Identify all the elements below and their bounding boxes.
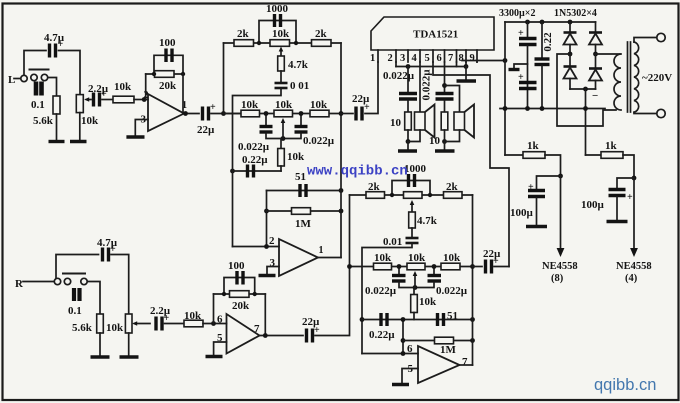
svg-text:+: + xyxy=(627,192,633,203)
wire wiper to 10k (2) xyxy=(413,288,415,295)
svg-text:0 01: 0 01 xyxy=(290,80,309,92)
arrow to NE4558 (4) xyxy=(630,248,638,257)
junction xyxy=(299,111,304,116)
ground (5.6k R) xyxy=(91,355,110,358)
svg-text:0.1: 0.1 xyxy=(31,99,45,111)
svg-text:2: 2 xyxy=(269,235,275,247)
junction AC left xyxy=(568,52,573,57)
junction tone2 in row xyxy=(347,264,352,269)
junction wiper xyxy=(281,136,286,141)
wire 10k to pin2 xyxy=(134,99,148,101)
wire 0.022 right stem xyxy=(300,114,302,126)
svg-text:1M: 1M xyxy=(295,218,312,230)
potentiometer 10k treble (tone2) xyxy=(404,192,423,199)
wire node to ground xyxy=(407,142,409,150)
svg-text:1M: 1M xyxy=(440,344,457,356)
potentiometer 10k (R) xyxy=(125,314,132,333)
capacitor 3300u no.1 xyxy=(518,22,537,109)
capacitor 0.01 (tone2) xyxy=(406,238,419,243)
resistor 1M (tone1) xyxy=(292,208,311,215)
junction pin8 bus xyxy=(464,64,469,69)
junction fb loop left xyxy=(222,292,226,296)
resistor 10k (R series) xyxy=(184,320,203,327)
resistor 10k (tone1 mid right) xyxy=(310,110,329,117)
svg-text:10k: 10k xyxy=(419,296,437,308)
wire to NE4558 arrow (4) xyxy=(633,178,635,249)
capacitor 100u (left) xyxy=(528,182,545,197)
wire primary top xyxy=(634,38,657,43)
wire pot to ground xyxy=(79,113,81,141)
svg-text:2: 2 xyxy=(388,53,393,64)
diode D3 xyxy=(564,54,577,89)
svg-text:L: L xyxy=(8,74,15,86)
wire pin6 to speaker B xyxy=(445,86,460,113)
junction 1M right xyxy=(339,209,344,214)
wire tone1 output vertical xyxy=(340,43,342,258)
wire op1 output xyxy=(184,113,199,115)
wire pin3 to ground xyxy=(267,267,279,275)
wire 505 to 1k left xyxy=(505,154,523,156)
wire 0.022 left stem (2) xyxy=(398,267,400,275)
capacitor 0.22 xyxy=(535,22,550,109)
potentiometer 10k treble (tone1) xyxy=(270,40,290,47)
wire 0.022 right stem (2) xyxy=(433,267,435,275)
wire minus down to rail xyxy=(585,89,587,155)
wire pin3 to ground xyxy=(135,120,148,136)
svg-text:0.022µ: 0.022µ xyxy=(365,285,397,297)
junction pin2 xyxy=(264,244,269,249)
capacitor 22u (L out) xyxy=(203,102,217,121)
ground (op1b pin5) xyxy=(206,355,223,358)
wire speaker A return xyxy=(408,130,420,142)
wire supply vertical xyxy=(504,22,506,155)
wire bottom rail xyxy=(500,108,605,110)
wire tone2 output xyxy=(460,364,473,366)
svg-text:2k: 2k xyxy=(315,28,328,40)
svg-text:10k: 10k xyxy=(184,310,202,322)
junction 1M left (2) xyxy=(401,338,406,343)
wire 0.01 down to mid row xyxy=(362,245,412,354)
terminal circle top xyxy=(657,33,665,41)
resistor 5.6k (L) xyxy=(53,96,60,114)
wire pin4 to speaker A xyxy=(419,62,421,112)
wire wiper bus (bass pot 1) xyxy=(266,134,301,139)
wire speaker B return xyxy=(445,130,460,142)
capacitor 100 (L fb) xyxy=(166,49,172,63)
capacitor 0.22u (tone1) xyxy=(248,165,254,178)
svg-text:~220V: ~220V xyxy=(642,72,672,84)
arrow to NE4558 (8) xyxy=(557,248,565,257)
capacitor 2.2u (L) xyxy=(94,89,108,107)
svg-text:22µ: 22µ xyxy=(483,248,501,260)
wire fb to output xyxy=(182,74,184,114)
wire wiper bus (bass pot 2) xyxy=(399,283,434,288)
terminal circle bottom xyxy=(657,109,665,117)
wire 4.7u to pot top xyxy=(111,255,129,315)
svg-text:7: 7 xyxy=(448,53,453,64)
wire 5.6k to ground xyxy=(56,114,58,141)
svg-text:3300µ×2: 3300µ×2 xyxy=(499,8,535,19)
svg-text:(8): (8) xyxy=(551,273,564,284)
wire 10 to ground node xyxy=(444,130,446,142)
junction tone1 0.22u xyxy=(230,169,235,174)
resistor 10k (L series) xyxy=(113,96,134,103)
wire pin6 down xyxy=(444,62,446,92)
svg-text:4.7µ: 4.7µ xyxy=(97,237,118,249)
wiper arrow (treble pot 1) xyxy=(279,47,284,57)
svg-text:0.22: 0.22 xyxy=(542,32,554,52)
resistor 2k (tone2 left) xyxy=(366,192,385,199)
svg-text:+: + xyxy=(518,72,524,83)
capacitor 0.022u (tone1 right) xyxy=(295,127,308,133)
wire 4.7k to 0.01 xyxy=(411,228,413,237)
junction 1000 left xyxy=(257,41,261,45)
svg-text:TDA1521: TDA1521 xyxy=(413,29,458,41)
svg-text:2.2µ: 2.2µ xyxy=(150,305,171,317)
svg-text:10k: 10k xyxy=(241,99,259,111)
op-amp U1b triangle xyxy=(227,314,260,354)
junction 1000 right xyxy=(294,41,298,45)
svg-text:4.7k: 4.7k xyxy=(417,215,438,227)
resistor 10k (bass wiper 2) xyxy=(411,295,418,313)
wire jack c1 up to 4.7u xyxy=(56,255,99,279)
potentiometer 10k bass (tone1) xyxy=(274,110,293,117)
junction pin3 bus xyxy=(406,64,411,69)
capacitor 100u (right) xyxy=(609,190,634,204)
wire cap B to 10 xyxy=(444,101,446,113)
svg-text:10k: 10k xyxy=(443,252,461,264)
wire pins 8-9 to supply xyxy=(462,61,505,63)
junction 1M right (2) xyxy=(470,338,475,343)
svg-text:5.6k: 5.6k xyxy=(33,115,54,127)
svg-text:6: 6 xyxy=(217,314,223,326)
wire 1M row (2) xyxy=(403,340,473,342)
wire tone2 output vertical xyxy=(472,195,474,365)
capacitor 0.22u (tone2) xyxy=(381,313,387,326)
junction 1M left xyxy=(264,209,269,214)
capacitor 22u (R out) xyxy=(307,325,321,343)
resistor 10k (bass wiper 1) xyxy=(278,149,285,167)
svg-text:0.01: 0.01 xyxy=(383,236,402,248)
svg-text:7: 7 xyxy=(254,323,260,335)
wire pin8 ground stem xyxy=(465,67,467,80)
op-amp U2b triangle (tone2) xyxy=(418,346,460,383)
svg-text:8: 8 xyxy=(459,53,464,64)
ground (centre tap) xyxy=(509,68,520,71)
svg-text:0.1: 0.1 xyxy=(68,305,82,317)
capacitor 0.1 (L, dark) xyxy=(36,82,42,96)
svg-text:1: 1 xyxy=(319,245,324,256)
svg-text:4.7µ: 4.7µ xyxy=(44,32,65,44)
svg-text:0.022µ: 0.022µ xyxy=(303,135,335,147)
svg-text:10k: 10k xyxy=(81,115,99,127)
junction 51 right xyxy=(339,188,344,193)
svg-text:−: − xyxy=(592,90,598,102)
diode D1 xyxy=(564,22,577,54)
junction minus xyxy=(583,87,588,92)
wire 10k to 0.22u wire xyxy=(280,166,282,171)
svg-text:100µ: 100µ xyxy=(581,199,605,211)
op-amp U1a triangle xyxy=(148,94,184,131)
wire centre tap stub xyxy=(514,64,528,69)
wire mid row (bass) xyxy=(224,113,342,115)
wire 4.7u to pot top xyxy=(59,51,81,95)
transformer T1 primary winding xyxy=(634,42,639,112)
svg-text:10k: 10k xyxy=(374,252,392,264)
junction xyxy=(264,111,269,116)
svg-text:www.qqibb.cn: www.qqibb.cn xyxy=(307,164,408,180)
wire V+ top rail xyxy=(505,21,596,23)
svg-text:4: 4 xyxy=(412,53,418,64)
svg-text:10k: 10k xyxy=(106,322,124,334)
resistor 4.7k (tone1) xyxy=(278,56,285,71)
wiper arrow (bass pot 1) xyxy=(281,118,286,139)
svg-text:20k: 20k xyxy=(232,300,250,312)
junction 1000 right xyxy=(428,193,432,197)
svg-text:0.022µ: 0.022µ xyxy=(436,285,468,297)
svg-text:5: 5 xyxy=(425,53,430,64)
svg-text:20k: 20k xyxy=(159,80,177,92)
junction 100u left xyxy=(558,174,563,179)
capacitor 0.022u (tone2 left) xyxy=(392,276,406,282)
op-amp U2a triangle (tone1) xyxy=(279,239,318,276)
wire 51 row xyxy=(267,190,342,192)
svg-text:10k: 10k xyxy=(275,99,293,111)
svg-text:7: 7 xyxy=(462,356,468,368)
wire bus pins 2-3-7-8 xyxy=(396,62,466,67)
junction fb loop right xyxy=(181,72,185,76)
wire tone1 output xyxy=(318,257,341,259)
wire minus rail to 1k right xyxy=(586,154,602,156)
wire jack c3 down to 5.6k xyxy=(48,78,57,97)
wire 5.6k to ground xyxy=(99,333,101,356)
wire wiper to 10k xyxy=(280,139,282,149)
resistor 20k (R fb) xyxy=(230,291,250,298)
ground (zobel A) xyxy=(398,149,417,152)
junction rail crossings xyxy=(503,106,508,111)
capacitor 4.7u (R) xyxy=(103,244,117,262)
wire 100u to ground xyxy=(616,197,618,220)
wire fb vertical (tone1) xyxy=(266,191,268,247)
capacitor 2.2u (R) xyxy=(156,313,170,331)
svg-text:10k: 10k xyxy=(287,151,305,163)
junction xyxy=(397,264,402,269)
svg-text:2k: 2k xyxy=(368,181,381,193)
svg-text:+: + xyxy=(518,28,524,39)
capacitor 0.022u (tone2 right) xyxy=(428,276,442,282)
wire 1000 cap loop xyxy=(259,21,296,44)
pin stubs TDA1521 xyxy=(378,50,477,62)
capacitor 100 (R fb) xyxy=(237,271,243,285)
resistor 5.6k (R) xyxy=(97,314,104,333)
wire node to 100u xyxy=(617,178,634,188)
svg-text:NE4558: NE4558 xyxy=(542,261,578,272)
capacitor 0.01 (tone1) xyxy=(275,83,288,88)
svg-text:0.22µ: 0.22µ xyxy=(242,154,268,166)
capacitor 51 (tone2) xyxy=(438,313,444,326)
svg-text:100µ: 100µ xyxy=(510,207,534,219)
capacitor 3300u no.2 xyxy=(518,72,537,89)
wire tone1 input vertical xyxy=(223,43,225,114)
svg-text:1N5302×4: 1N5302×4 xyxy=(554,8,597,19)
wire feedback riser left xyxy=(145,74,147,100)
wire AC to secondary top xyxy=(596,53,621,55)
svg-text:22µ: 22µ xyxy=(197,124,215,136)
potentiometer 10k bass (tone2) xyxy=(407,263,425,270)
wire 10 to ground node xyxy=(407,130,409,142)
junction pin6 branch xyxy=(442,83,447,88)
svg-text:100: 100 xyxy=(159,37,176,49)
ground (TDA pin8) xyxy=(457,79,477,82)
svg-text:10k: 10k xyxy=(408,252,426,264)
junction 0.22u (2) xyxy=(360,317,365,322)
jack J2 switch bar xyxy=(63,273,85,275)
svg-text:9: 9 xyxy=(470,53,475,64)
wire 0.022 left stem xyxy=(265,114,267,126)
svg-text:0.022µ: 0.022µ xyxy=(421,69,433,101)
resistor 1M (tone2) xyxy=(435,337,454,344)
junction fb top xyxy=(401,317,406,322)
wire 100 cap loop xyxy=(154,55,183,74)
junction (op1b pin6) xyxy=(211,321,216,326)
wire feedback row 20k xyxy=(146,73,183,75)
svg-text:100: 100 xyxy=(228,260,245,272)
ground (pot R) xyxy=(120,355,139,358)
jack J1 contact circles xyxy=(21,75,27,81)
wire 22u to pin1 xyxy=(341,62,378,114)
wire L to jack xyxy=(14,78,21,80)
wire bridge minus node xyxy=(570,88,596,90)
svg-text:51: 51 xyxy=(295,171,306,183)
ground (tone2 pin5) xyxy=(392,383,409,386)
junction rail caps xyxy=(525,20,530,25)
wire 0.01 down to mid row xyxy=(233,90,282,247)
svg-text:4.7k: 4.7k xyxy=(288,59,309,71)
wire 100u to ground xyxy=(536,198,538,225)
svg-text:10: 10 xyxy=(429,135,441,147)
wire pin3 to cap A xyxy=(407,67,409,92)
diode D4 xyxy=(589,54,602,89)
wire node to ground xyxy=(444,142,446,150)
wire op1b output xyxy=(260,335,304,337)
jack J2 contact circles xyxy=(54,278,60,284)
resistor 1k (left) xyxy=(523,152,545,159)
junction wiper 2 xyxy=(413,285,418,290)
svg-text:+: + xyxy=(210,102,216,113)
wire 100 cap loop (R) xyxy=(224,278,255,295)
wire 22u to tone2 input xyxy=(315,195,350,336)
junction out row (2) xyxy=(470,264,475,269)
capacitor 1000 (tone2) xyxy=(409,174,415,187)
junction pin6 xyxy=(401,351,406,356)
wire 1M row xyxy=(267,210,342,212)
ground (100u right) xyxy=(607,220,628,223)
jack J1 switch bar xyxy=(30,69,49,71)
junction (op1 pin2) xyxy=(142,97,147,102)
wire cap A to 10 xyxy=(407,101,409,113)
wire to NE4558 arrow (8) xyxy=(560,176,562,249)
junction AC right xyxy=(593,52,598,57)
svg-text:10k: 10k xyxy=(310,99,328,111)
svg-text:R: R xyxy=(15,278,24,290)
junction 1000 left xyxy=(390,193,394,197)
wire 2.2u to 10k xyxy=(102,99,113,101)
svg-text:22µ: 22µ xyxy=(352,93,370,105)
svg-text:10k: 10k xyxy=(114,81,132,93)
junction fb loop left xyxy=(152,72,156,76)
svg-text:2k: 2k xyxy=(237,28,250,40)
svg-text:51: 51 xyxy=(447,310,458,322)
ground (zobel B) xyxy=(435,149,455,152)
svg-text:qqibb.cn: qqibb.cn xyxy=(594,376,656,394)
resistor 1k (right) xyxy=(601,152,623,159)
wire 22u to tone input node xyxy=(211,113,241,115)
resistor 10 (zobel A) xyxy=(405,112,412,130)
capacitor 0.1 (R) xyxy=(74,288,80,301)
resistor 10k (tone1 mid left) xyxy=(241,110,260,117)
svg-text:0.022µ: 0.022µ xyxy=(383,70,415,82)
transformer T1 core xyxy=(628,42,631,112)
capacitor 22u (to TDA pin1) xyxy=(356,102,370,121)
wiper arrow (R pot) xyxy=(132,321,150,326)
junction out row xyxy=(339,111,344,116)
svg-text:6: 6 xyxy=(407,343,413,355)
wire top row tone2 xyxy=(350,194,473,196)
junction tone1 in row xyxy=(221,111,226,116)
wire pin6 (tone2 opamp) xyxy=(362,353,418,355)
capacitor 4.7u (L) xyxy=(50,39,64,58)
junction 100u right xyxy=(632,176,637,181)
junction zobel B xyxy=(442,139,447,144)
wire mid row tone2 xyxy=(350,266,473,268)
svg-text:1: 1 xyxy=(370,53,375,64)
resistor 2k (tone2 right) xyxy=(444,192,463,199)
svg-text:NE4558: NE4558 xyxy=(616,261,652,272)
wire 10k to pin6 xyxy=(203,323,227,325)
wire 1k to node xyxy=(545,155,561,176)
ground (100u left) xyxy=(526,225,547,228)
wire pot to ground xyxy=(128,333,130,356)
capacitor 0.022u (zobel A) xyxy=(399,94,417,100)
wiper arrow (L pot) xyxy=(84,97,91,102)
diode D2 xyxy=(589,22,602,54)
svg-text:10k: 10k xyxy=(272,28,290,40)
svg-text:1000: 1000 xyxy=(266,3,289,15)
capacitor 22u (to TDA pin5) xyxy=(486,256,500,274)
wire primary bottom xyxy=(634,112,657,113)
capacitor 0.022u (zobel B) xyxy=(436,94,454,100)
resistor 10k (tone2 mid right) xyxy=(441,263,460,270)
wire pin5 to ground (2) xyxy=(402,369,418,384)
wire feedback row 20k (R) xyxy=(214,293,266,295)
resistor 2k (tone1 left) xyxy=(234,40,254,47)
ground (op1 pin3) xyxy=(126,135,144,138)
wire R to jack xyxy=(23,281,54,283)
wire jack c1 up to 4.7u xyxy=(24,51,46,76)
capacitor 0.022u (tone1 left) xyxy=(260,127,273,133)
svg-text:0.22µ: 0.22µ xyxy=(369,329,395,341)
wire pin2 (tone1 opamp) xyxy=(233,246,280,248)
svg-text:1k: 1k xyxy=(527,140,540,152)
wire fb vertical (tone2) xyxy=(402,320,404,354)
resistor 2k (tone1 right) xyxy=(312,40,332,47)
wire pin5 to ground xyxy=(214,342,227,355)
wire pin5 signal return path xyxy=(433,62,509,267)
op-amp U3 TDA1521 body xyxy=(371,17,494,50)
junction xyxy=(432,264,437,269)
svg-text:5.6k: 5.6k xyxy=(72,322,93,334)
capacitor 1000 (tone1) xyxy=(275,14,281,27)
